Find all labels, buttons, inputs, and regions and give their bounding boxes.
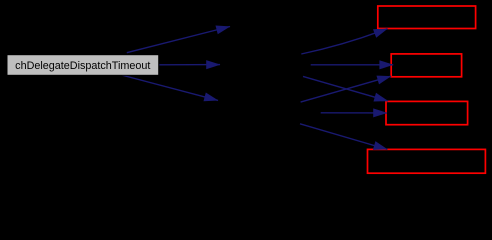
svg-text:chDelegateDispatchTimeout: chDelegateDispatchTimeout — [15, 60, 150, 72]
